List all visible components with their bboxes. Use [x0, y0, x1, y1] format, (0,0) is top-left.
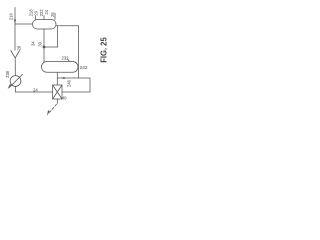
leader tick 222	[54, 13, 56, 20]
svg-text:30: 30	[38, 41, 43, 46]
wire upper drum bottom outlet	[43, 29, 45, 47]
pump arrowhead	[8, 84, 12, 89]
svg-text:40: 40	[62, 96, 67, 101]
arrowhead outlet	[47, 110, 50, 116]
wire funnel to pump	[14, 58, 16, 76]
wire drum outlet to right	[56, 25, 79, 27]
svg-text:34: 34	[30, 41, 35, 46]
svg-text:28: 28	[16, 45, 21, 50]
leader tick 218	[35, 16, 37, 20]
svg-text:24: 24	[44, 9, 49, 14]
arrowhead on inlet line	[14, 20, 16, 24]
svg-text:FIG. 25: FIG. 25	[100, 37, 109, 63]
wire down to lower drum	[43, 47, 45, 62]
wire pump outlet down	[15, 86, 17, 92]
dashed outlet arrow	[50, 104, 57, 112]
wire inlet line 216 (vertical left)	[14, 8, 16, 51]
svg-text:238: 238	[5, 70, 10, 78]
vessel lower drum 232	[42, 62, 79, 73]
pump circle 238	[10, 76, 21, 87]
wire bypass loop right	[89, 78, 91, 92]
pump diagonal shaft	[9, 74, 22, 87]
funnel arrow 218 (open V)	[11, 51, 20, 59]
leader tick 220	[43, 16, 45, 20]
leader tick 232	[68, 59, 70, 62]
svg-text:216: 216	[9, 13, 14, 21]
wire pump outlet horizontal to valve	[16, 91, 53, 93]
svg-text:20: 20	[33, 10, 38, 15]
vessel upper drum 220	[33, 20, 57, 30]
wire lower drum bottom to valve	[56, 72, 58, 85]
svg-text:26: 26	[50, 12, 55, 17]
wire valve bottom outlet	[56, 99, 58, 104]
svg-text:232: 232	[62, 56, 70, 61]
junction dot	[43, 46, 46, 49]
svg-text:242: 242	[80, 65, 88, 71]
wire bypass loop bottom	[62, 91, 90, 93]
wire bypass loop top	[57, 77, 90, 79]
svg-text:246: 246	[67, 79, 72, 87]
svg-text:24: 24	[33, 87, 38, 92]
wire tee branch down from outlet	[57, 26, 59, 47]
wire branch horizontal to junction	[44, 46, 58, 48]
wire feed to upper drum	[15, 23, 33, 25]
wire long vertical right	[78, 26, 80, 78]
arrowhead on loop top	[61, 77, 64, 79]
valve 236 (rect with X)	[53, 85, 62, 99]
